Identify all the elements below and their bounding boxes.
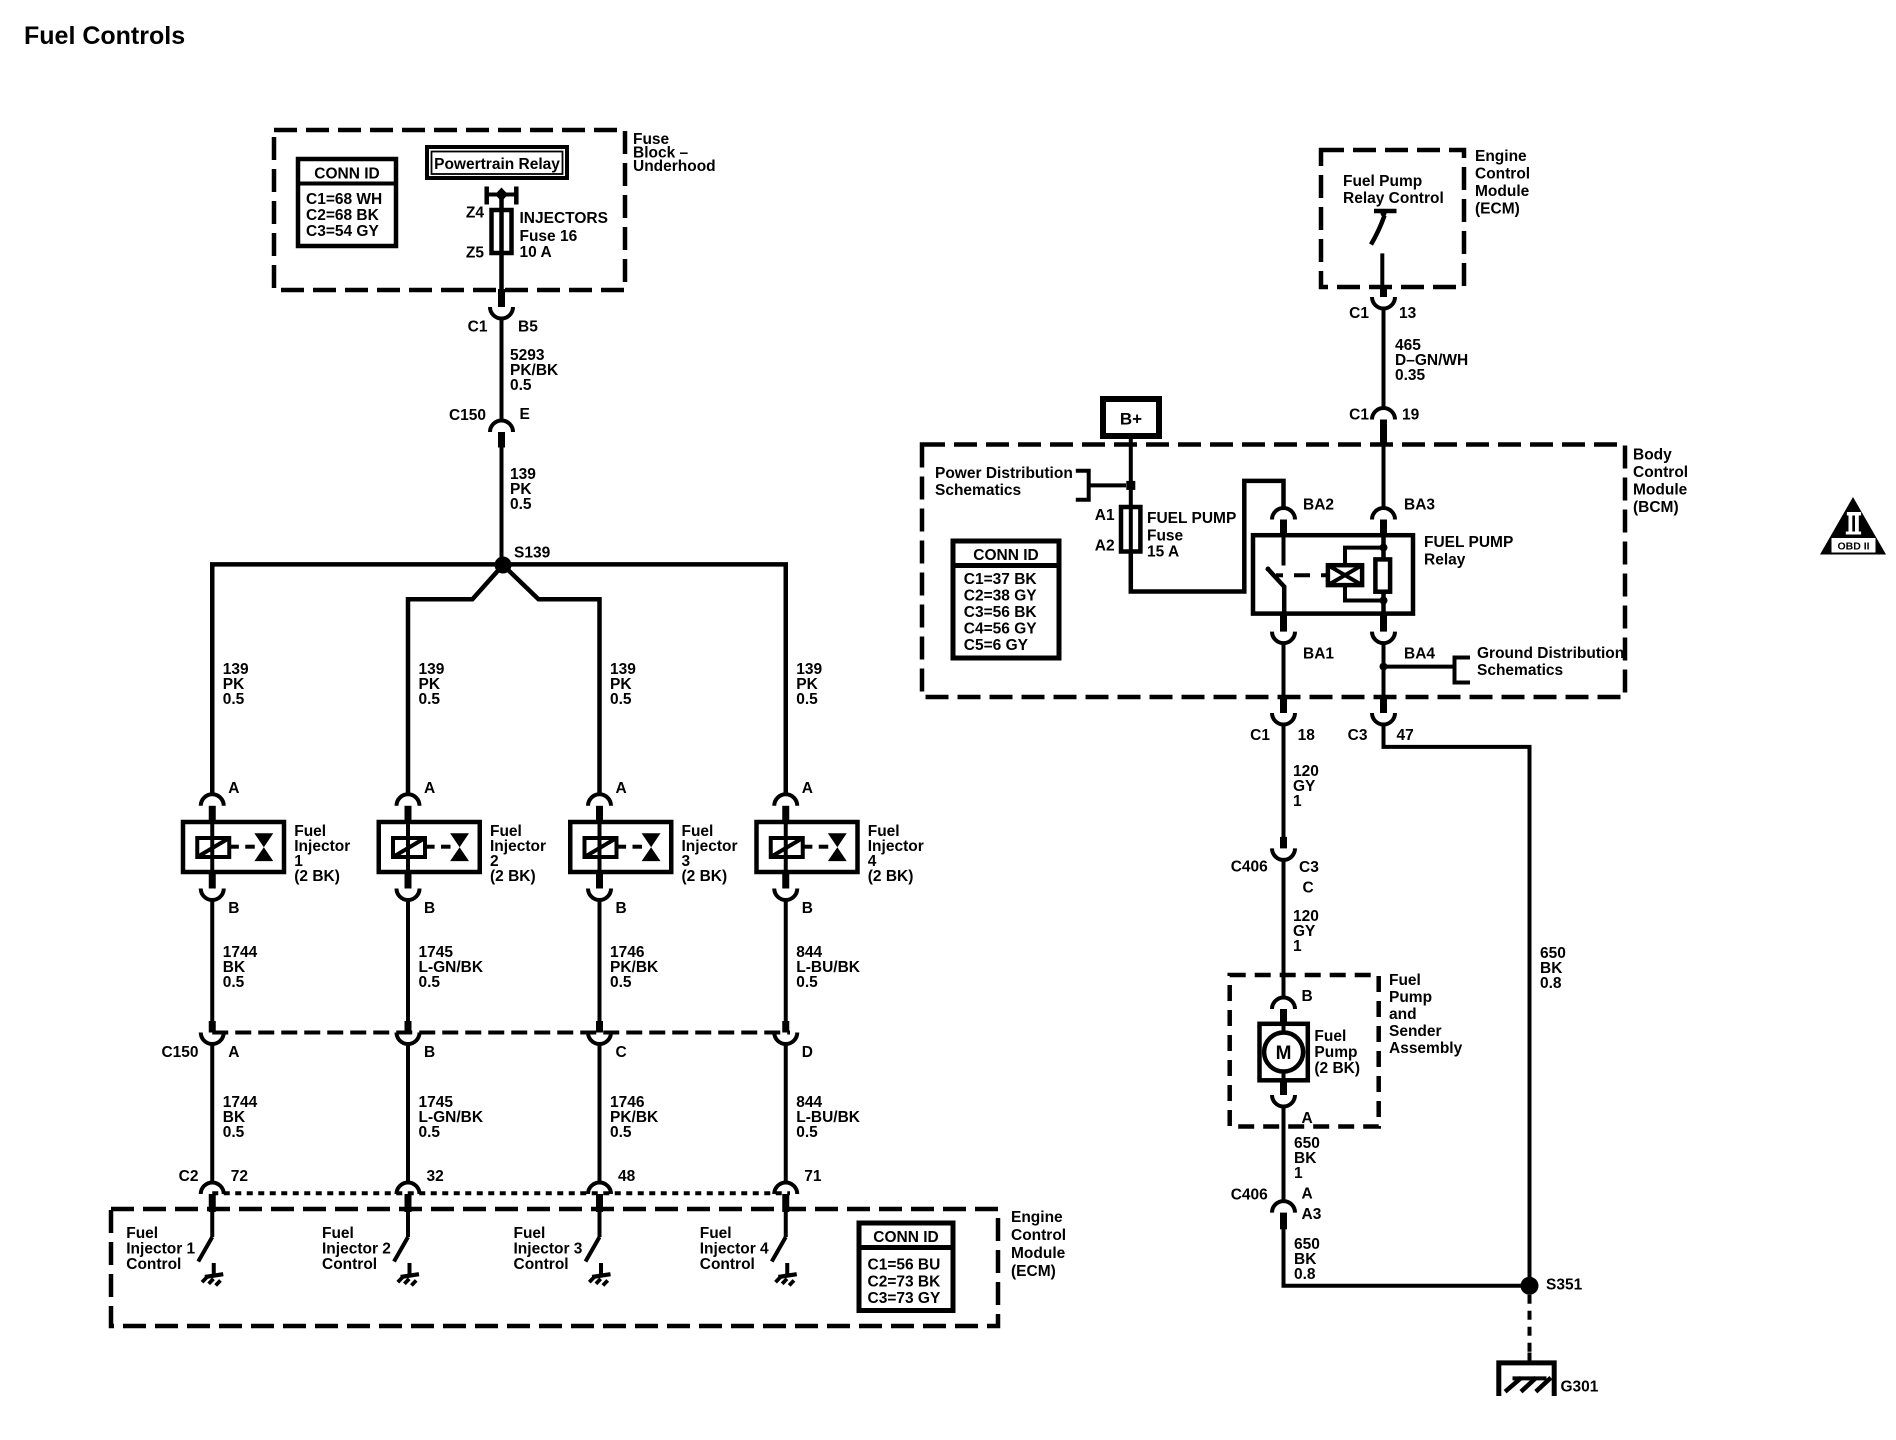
value label 1746 PK/BK lower 3 bbox=[610, 1094, 659, 1141]
wire S139 branch left inner bbox=[408, 565, 503, 796]
pin label A2 bbox=[1095, 538, 1115, 555]
svg-text:C: C bbox=[1303, 880, 1314, 897]
svg-text:Injector 4: Injector 4 bbox=[700, 1241, 769, 1258]
svg-text:Fuel: Fuel bbox=[514, 1225, 546, 1242]
svg-text:Relay Control: Relay Control bbox=[1343, 190, 1444, 207]
wire 1745 lower segment 2 bbox=[406, 1042, 410, 1184]
svg-text:(2 BK): (2 BK) bbox=[294, 868, 340, 885]
OBD II marker bbox=[1820, 497, 1886, 555]
power feed B+ box bbox=[1103, 399, 1159, 436]
connector BA1 bbox=[1272, 614, 1295, 644]
wire 1744 lower segment 1 bbox=[210, 1042, 214, 1184]
pin label D at C150 bbox=[802, 1044, 813, 1061]
svg-text:BA1: BA1 bbox=[1303, 646, 1334, 663]
wire injector bus horizontal bbox=[212, 564, 786, 796]
pin label B pump bbox=[1302, 988, 1313, 1005]
connector BA3 bbox=[1372, 508, 1395, 535]
svg-text:Engine: Engine bbox=[1011, 1209, 1063, 1226]
value label 650 BK 0.8 right bbox=[1540, 945, 1566, 992]
svg-text:0.35: 0.35 bbox=[1395, 367, 1426, 384]
fuel injector 2 control driver switch bbox=[394, 1212, 408, 1262]
pin label 72 at ECM bbox=[231, 1168, 248, 1185]
relay switch contact bbox=[1266, 535, 1286, 613]
svg-text:0.5: 0.5 bbox=[419, 1124, 441, 1141]
fuel pump relay control driver switch bbox=[1371, 211, 1397, 289]
svg-text:C150: C150 bbox=[449, 407, 486, 424]
svg-text:(2 BK): (2 BK) bbox=[682, 868, 728, 885]
connector C150 pin D bbox=[774, 1021, 797, 1044]
pin label A injector 4 bbox=[802, 780, 813, 797]
connector pin A injector 3 bbox=[588, 794, 611, 822]
svg-text:FUEL PUMP: FUEL PUMP bbox=[1424, 534, 1513, 551]
connector label C2 bbox=[179, 1168, 199, 1185]
connector BA4 bbox=[1372, 614, 1395, 644]
CONN ID table (ECM) bbox=[859, 1223, 953, 1311]
svg-text:0.8: 0.8 bbox=[1540, 975, 1562, 992]
value label 139 PK 0.5 feed bbox=[510, 466, 536, 513]
svg-text:FUEL PUMP: FUEL PUMP bbox=[1147, 510, 1236, 527]
engine control module (ECM) top dashed box bbox=[1321, 150, 1464, 287]
svg-text:(BCM): (BCM) bbox=[1633, 499, 1679, 516]
label Fuel Pump and Sender Assembly bbox=[1389, 972, 1463, 1057]
svg-text:13: 13 bbox=[1399, 305, 1417, 322]
svg-text:0.5: 0.5 bbox=[796, 1124, 818, 1141]
svg-text:1: 1 bbox=[1293, 938, 1302, 955]
svg-text:Fuel: Fuel bbox=[126, 1225, 158, 1242]
connector C2 pin 71 bbox=[774, 1183, 797, 1213]
svg-text:10 A: 10 A bbox=[520, 244, 552, 261]
svg-text:and: and bbox=[1389, 1006, 1417, 1023]
svg-text:47: 47 bbox=[1397, 727, 1414, 744]
value label 120 GY 1 lower bbox=[1293, 908, 1319, 955]
ground fuel injector 1 driver bbox=[202, 1263, 223, 1285]
svg-text:CONN ID: CONN ID bbox=[973, 547, 1038, 564]
svg-text:0.5: 0.5 bbox=[223, 1124, 245, 1141]
svg-text:Injector 1: Injector 1 bbox=[126, 1241, 195, 1258]
svg-text:C406: C406 bbox=[1231, 859, 1268, 876]
svg-text:M: M bbox=[1276, 1043, 1292, 1064]
svg-text:Injector 3: Injector 3 bbox=[514, 1241, 583, 1258]
pin label A at C150 bbox=[228, 1044, 239, 1061]
svg-text:C3: C3 bbox=[1348, 727, 1368, 744]
svg-text:A3: A3 bbox=[1302, 1206, 1322, 1223]
svg-text:B5: B5 bbox=[518, 319, 538, 336]
connector pin A injector 1 bbox=[201, 794, 224, 822]
svg-text:Schematics: Schematics bbox=[1477, 662, 1563, 679]
svg-text:Fuse 16: Fuse 16 bbox=[520, 228, 578, 245]
fuel injector 3 bbox=[570, 822, 671, 872]
wire 844 upper segment 4 bbox=[784, 898, 788, 1021]
svg-text:A: A bbox=[616, 780, 627, 797]
label Fuel Injector 1 (2 BK) bbox=[294, 823, 350, 885]
connector C1 pin 18 bbox=[1272, 697, 1295, 725]
wire BA1 to C1 18 bbox=[1282, 642, 1286, 698]
svg-text:C150: C150 bbox=[161, 1044, 198, 1061]
pin label A1 bbox=[1095, 507, 1115, 524]
svg-text:A1: A1 bbox=[1095, 507, 1115, 524]
svg-text:A: A bbox=[228, 780, 239, 797]
connector C150 pin A bbox=[201, 1021, 224, 1044]
svg-text:C3: C3 bbox=[1299, 859, 1319, 876]
svg-text:Z4: Z4 bbox=[466, 205, 484, 222]
svg-text:CONN ID: CONN ID bbox=[873, 1229, 938, 1246]
svg-text:(ECM): (ECM) bbox=[1011, 1263, 1056, 1280]
svg-text:0.5: 0.5 bbox=[223, 691, 245, 708]
label Fuel Pump (2 BK) bbox=[1314, 1028, 1360, 1077]
pin label C1 13 bbox=[1349, 305, 1416, 322]
svg-text:48: 48 bbox=[618, 1168, 636, 1185]
connector C406 pin A A3 bbox=[1272, 1201, 1295, 1229]
fuel pump and sender assembly dashed box bbox=[1230, 975, 1379, 1127]
svg-text:0.5: 0.5 bbox=[610, 974, 632, 991]
wire 1746 lower segment 3 bbox=[598, 1042, 602, 1184]
pin label A injector 3 bbox=[616, 780, 627, 797]
label G301 bbox=[1561, 1379, 1599, 1396]
svg-text:0.5: 0.5 bbox=[796, 691, 818, 708]
svg-text:C1=56 BU: C1=56 BU bbox=[868, 1257, 941, 1274]
svg-text:C3=54 GY: C3=54 GY bbox=[306, 223, 379, 240]
svg-text:Pump: Pump bbox=[1314, 1044, 1357, 1061]
fuse block underhood dashed box bbox=[274, 130, 625, 290]
wire 1746 upper segment 3 bbox=[598, 898, 602, 1021]
svg-text:71: 71 bbox=[804, 1168, 822, 1185]
title Fuel Controls bbox=[24, 22, 185, 50]
wire S139 branch right inner bbox=[503, 565, 600, 796]
svg-text:1: 1 bbox=[1293, 793, 1302, 810]
svg-text:(ECM): (ECM) bbox=[1475, 201, 1520, 218]
svg-text:C3=56 BK: C3=56 BK bbox=[964, 604, 1038, 621]
svg-text:Ground Distribution: Ground Distribution bbox=[1477, 645, 1624, 662]
value label 1744 BK upper 1 bbox=[223, 944, 258, 991]
connector C150 dashed tie line bbox=[212, 1031, 790, 1035]
svg-text:(2 BK): (2 BK) bbox=[490, 868, 536, 885]
svg-text:C406: C406 bbox=[1231, 1187, 1268, 1204]
svg-text:Powertrain Relay: Powertrain Relay bbox=[434, 156, 560, 173]
connector pin B injector 1 bbox=[201, 872, 224, 900]
wire fuse to relay routing bbox=[1131, 481, 1284, 592]
body control module (BCM) dashed box bbox=[922, 445, 1625, 698]
label Fuel Injector 2 (2 BK) bbox=[490, 823, 546, 885]
node power distribution tap bbox=[1126, 481, 1135, 490]
svg-text:B: B bbox=[802, 900, 813, 917]
svg-text:Module: Module bbox=[1475, 183, 1530, 200]
svg-text:(2 BK): (2 BK) bbox=[868, 868, 914, 885]
svg-text:1: 1 bbox=[1294, 1165, 1303, 1182]
svg-text:C4=56 GY: C4=56 GY bbox=[964, 621, 1037, 638]
pin label C406 A A3 bbox=[1231, 1186, 1322, 1224]
wire 650 BK 1 segment bbox=[1282, 1105, 1286, 1202]
svg-text:0.5: 0.5 bbox=[510, 496, 532, 513]
connector pin B injector 2 bbox=[397, 872, 420, 900]
connector pin A injector 2 bbox=[397, 794, 420, 822]
pin label Z5 bbox=[466, 245, 484, 262]
label Engine Control Module (ECM) right bbox=[1475, 148, 1530, 218]
connector C2 dotted tie line bbox=[212, 1191, 790, 1195]
svg-text:Power Distribution: Power Distribution bbox=[935, 465, 1073, 482]
connector C150 pin C bbox=[588, 1021, 611, 1044]
pin label C1 19 bbox=[1349, 407, 1419, 424]
connector pin A injector 4 bbox=[774, 794, 797, 822]
label Fuel Injector 3 (2 BK) bbox=[682, 823, 738, 885]
connector pin B injector 4 bbox=[774, 872, 797, 900]
pin label C406 C3 C bbox=[1231, 859, 1319, 897]
relay coil upper tie bbox=[1345, 548, 1384, 566]
connector BA2 bbox=[1272, 508, 1295, 535]
connector C1 pin 13 bbox=[1372, 287, 1395, 309]
label Fuse Block - Underhood bbox=[633, 131, 716, 175]
node ground distribution tap bbox=[1380, 663, 1388, 671]
connector pump pin A bbox=[1272, 1080, 1295, 1106]
wire fuse to connector C1 bbox=[499, 252, 504, 290]
svg-text:Control: Control bbox=[126, 1256, 181, 1273]
value label 1746 PK/BK upper 3 bbox=[610, 944, 659, 991]
pin label BA1 bbox=[1303, 646, 1334, 663]
svg-text:0.5: 0.5 bbox=[796, 974, 818, 991]
svg-text:BA2: BA2 bbox=[1303, 497, 1334, 514]
label Engine Control Module (ECM) left bbox=[1011, 1209, 1066, 1280]
value label 465 D-GN/WH 0.35 bbox=[1395, 337, 1468, 384]
value label FUEL PUMP Fuse 15 A bbox=[1147, 510, 1236, 561]
svg-text:Fuel: Fuel bbox=[1314, 1028, 1346, 1045]
svg-text:Fuel: Fuel bbox=[1389, 972, 1421, 989]
pin label A pump bbox=[1302, 1110, 1313, 1127]
fuel injector 4 bbox=[757, 822, 858, 872]
relay coil lower tie bbox=[1345, 585, 1384, 600]
svg-text:A2: A2 bbox=[1095, 538, 1115, 555]
connector pin B injector 3 bbox=[588, 872, 611, 900]
ground distribution bracket bbox=[1384, 658, 1471, 683]
label Fuel Pump Relay Control bbox=[1343, 173, 1444, 207]
svg-text:0.8: 0.8 bbox=[1294, 1266, 1316, 1283]
label FUEL PUMP Relay bbox=[1424, 534, 1513, 569]
fuel pump motor M bbox=[1260, 1024, 1308, 1081]
label Fuel Injector 4 Control bbox=[700, 1225, 769, 1273]
pin label B at C150 bbox=[424, 1044, 435, 1061]
CONN ID table (BCM) bbox=[953, 541, 1059, 658]
wire 139 PK feed segment bbox=[500, 446, 504, 564]
svg-text:C2=73 BK: C2=73 BK bbox=[868, 1274, 942, 1291]
svg-text:C1: C1 bbox=[1349, 305, 1369, 322]
pin label B injector 1 bbox=[228, 900, 239, 917]
svg-text:B: B bbox=[424, 1044, 435, 1061]
svg-text:Engine: Engine bbox=[1475, 148, 1527, 165]
svg-text:C5=6 GY: C5=6 GY bbox=[964, 637, 1029, 654]
label Fuel Injector 4 (2 BK) bbox=[868, 823, 924, 885]
value label 1745 L-GN/BK lower 2 bbox=[419, 1094, 484, 1141]
pin label A injector 1 bbox=[228, 780, 239, 797]
svg-text:B: B bbox=[1302, 988, 1313, 1005]
wire 1744 upper segment 1 bbox=[210, 898, 214, 1021]
svg-text:C2=38 GY: C2=38 GY bbox=[964, 588, 1037, 605]
wire 465 D-GN/WH bbox=[1382, 307, 1386, 409]
svg-text:Module: Module bbox=[1011, 1245, 1066, 1262]
ground fuel injector 4 driver bbox=[776, 1263, 797, 1285]
connector C2 pin 32 bbox=[397, 1183, 420, 1213]
connector C406 pin C3 C bbox=[1272, 837, 1295, 860]
svg-text:C1: C1 bbox=[1250, 727, 1270, 744]
svg-text:A: A bbox=[1302, 1186, 1313, 1203]
wire 5293 PK/BK segment bbox=[500, 317, 504, 421]
svg-text:Fuel: Fuel bbox=[700, 1225, 732, 1242]
svg-text:D: D bbox=[802, 1044, 813, 1061]
value label 650 BK 0.8 left bbox=[1294, 1236, 1320, 1283]
node S351 splice bbox=[1521, 1277, 1583, 1295]
value label 139 PK 0.5 branch 2 bbox=[419, 661, 445, 708]
label Ground Distribution Schematics bbox=[1477, 645, 1624, 679]
svg-text:A: A bbox=[228, 1044, 239, 1061]
engine control module (ECM) dashed box bbox=[111, 1209, 998, 1326]
svg-text:B+: B+ bbox=[1120, 410, 1142, 429]
connector C150 pin E bbox=[490, 421, 513, 448]
pin label 71 at ECM bbox=[804, 1168, 822, 1185]
svg-text:INJECTORS: INJECTORS bbox=[520, 210, 608, 227]
svg-text:0.5: 0.5 bbox=[610, 691, 632, 708]
powertrain relay K box bbox=[427, 147, 567, 178]
svg-text:OBD II: OBD II bbox=[1837, 541, 1869, 553]
svg-text:19: 19 bbox=[1402, 407, 1420, 424]
value label 5293 PK/BK 0.5 bbox=[510, 347, 559, 394]
svg-text:Control: Control bbox=[700, 1256, 755, 1273]
connector C2 pin 72 bbox=[201, 1183, 224, 1213]
svg-text:Injector 2: Injector 2 bbox=[322, 1241, 391, 1258]
connector C1 pin 19 bbox=[1372, 408, 1395, 446]
pin label A injector 2 bbox=[424, 780, 435, 797]
svg-text:C2=68 BK: C2=68 BK bbox=[306, 207, 380, 224]
relay output bus symbol bbox=[487, 187, 517, 205]
pin label B injector 2 bbox=[424, 900, 435, 917]
value label 139 PK 0.5 branch 3 bbox=[610, 661, 636, 708]
relay coil bbox=[1328, 565, 1362, 585]
svg-text:0.5: 0.5 bbox=[510, 377, 532, 394]
pin label C3 47 bbox=[1348, 727, 1414, 744]
value label 844 L-BU/BK upper 4 bbox=[796, 944, 861, 991]
wire 1745 upper segment 2 bbox=[406, 898, 410, 1021]
svg-text:Control: Control bbox=[1475, 166, 1530, 183]
svg-text:S139: S139 bbox=[514, 545, 551, 562]
connector C150 pin B bbox=[397, 1021, 420, 1044]
relay suppression resistor bbox=[1375, 535, 1390, 613]
svg-text:0.5: 0.5 bbox=[419, 974, 441, 991]
svg-text:15 A: 15 A bbox=[1147, 544, 1179, 561]
wire 650 BK 0.8 to S351 bbox=[1284, 1228, 1530, 1286]
svg-text:0.5: 0.5 bbox=[610, 1124, 632, 1141]
svg-text:BA3: BA3 bbox=[1404, 497, 1435, 514]
svg-text:Schematics: Schematics bbox=[935, 482, 1021, 499]
fuse F16 INJECTORS 10A bbox=[492, 210, 512, 253]
svg-text:A: A bbox=[1302, 1110, 1313, 1127]
svg-text:B: B bbox=[228, 900, 239, 917]
svg-text:C: C bbox=[616, 1044, 627, 1061]
pin label BA4 bbox=[1404, 646, 1435, 663]
pin label C1 B5 bbox=[468, 319, 539, 336]
wire 844 lower segment 4 bbox=[784, 1042, 788, 1184]
ground fuel injector 2 driver bbox=[398, 1263, 419, 1285]
fuel injector 3 control driver switch bbox=[586, 1212, 600, 1262]
CONN ID table (fuse block) bbox=[298, 159, 396, 246]
svg-text:0.5: 0.5 bbox=[419, 691, 441, 708]
value label 139 PK 0.5 branch 1 bbox=[223, 661, 249, 708]
connector C2 pin 48 bbox=[588, 1183, 611, 1213]
value label 139 PK 0.5 branch 4 bbox=[796, 661, 822, 708]
wire 120 GY upper segment bbox=[1282, 723, 1286, 837]
value label 650 BK 1 bbox=[1294, 1135, 1320, 1182]
node relay coil upper junction bbox=[1380, 544, 1388, 552]
pin label BA2 bbox=[1303, 497, 1334, 514]
svg-text:C2: C2 bbox=[179, 1168, 199, 1185]
connector pump pin B bbox=[1272, 998, 1295, 1024]
pin label 48 at ECM bbox=[618, 1168, 636, 1185]
svg-text:B: B bbox=[616, 900, 627, 917]
pin label B injector 3 bbox=[616, 900, 627, 917]
node S139 splice bbox=[495, 545, 551, 574]
fuse FUEL PUMP 15A bbox=[1121, 507, 1140, 552]
svg-text:BA4: BA4 bbox=[1404, 646, 1435, 663]
svg-text:Control: Control bbox=[1011, 1227, 1066, 1244]
svg-text:Sender: Sender bbox=[1389, 1023, 1442, 1040]
wire B+ to fuse bbox=[1129, 436, 1133, 507]
svg-text:72: 72 bbox=[231, 1168, 248, 1185]
value label 844 L-BU/BK lower 4 bbox=[796, 1094, 861, 1141]
svg-text:C1=68 WH: C1=68 WH bbox=[306, 191, 382, 208]
svg-text:Fuel Controls: Fuel Controls bbox=[24, 22, 185, 50]
wire ECM to BA3 segment bbox=[1382, 444, 1386, 509]
svg-text:C3=73 GY: C3=73 GY bbox=[868, 1290, 941, 1307]
svg-text:B: B bbox=[424, 900, 435, 917]
svg-text:C1: C1 bbox=[468, 319, 488, 336]
fuel injector 4 control driver switch bbox=[772, 1212, 786, 1262]
connector C1 pin B5 bbox=[490, 289, 513, 319]
pin label Z4 bbox=[466, 205, 484, 222]
svg-text:Z5: Z5 bbox=[466, 245, 484, 262]
svg-text:Pump: Pump bbox=[1389, 989, 1432, 1006]
label Body Control Module (BCM) bbox=[1633, 447, 1688, 517]
pin label BA3 bbox=[1404, 497, 1435, 514]
power distribution bracket bbox=[1076, 471, 1126, 500]
pin label C at C150 bbox=[616, 1044, 627, 1061]
fuel injector 2 bbox=[379, 822, 480, 872]
svg-text:18: 18 bbox=[1298, 727, 1316, 744]
svg-text:Module: Module bbox=[1633, 482, 1688, 499]
node relay coil lower junction bbox=[1380, 597, 1388, 605]
fuel injector 1 bbox=[183, 822, 284, 872]
pin label 32 at ECM bbox=[427, 1168, 444, 1185]
svg-text:Control: Control bbox=[322, 1256, 377, 1273]
pin label B injector 4 bbox=[802, 900, 813, 917]
pin label C150 E bbox=[449, 406, 530, 424]
svg-text:Relay: Relay bbox=[1424, 552, 1466, 569]
fuel injector 1 control driver switch bbox=[198, 1212, 212, 1262]
svg-text:0.5: 0.5 bbox=[223, 974, 245, 991]
svg-text:32: 32 bbox=[427, 1168, 444, 1185]
svg-text:Fuel Pump: Fuel Pump bbox=[1343, 173, 1422, 190]
connector C3 pin 47 bbox=[1372, 697, 1395, 725]
pin label C1 18 bbox=[1250, 727, 1315, 744]
svg-text:E: E bbox=[520, 406, 530, 423]
svg-text:Fuel: Fuel bbox=[322, 1225, 354, 1242]
svg-text:S351: S351 bbox=[1546, 1277, 1583, 1294]
svg-text:CONN ID: CONN ID bbox=[314, 166, 379, 183]
value label INJECTORS Fuse 16 10 A bbox=[520, 210, 608, 261]
wire 650 BK 0.8 right branch bbox=[1384, 723, 1530, 1286]
relay actuation dashed link bbox=[1294, 573, 1328, 577]
svg-text:Fuse: Fuse bbox=[1147, 528, 1184, 545]
label Power Distribution Schematics bbox=[935, 465, 1073, 499]
svg-text:Underhood: Underhood bbox=[633, 158, 716, 175]
ground fuel injector 3 driver bbox=[589, 1263, 610, 1285]
svg-text:Assembly: Assembly bbox=[1389, 1040, 1463, 1057]
svg-text:Control: Control bbox=[514, 1256, 569, 1273]
label Fuel Injector 2 Control bbox=[322, 1225, 391, 1273]
